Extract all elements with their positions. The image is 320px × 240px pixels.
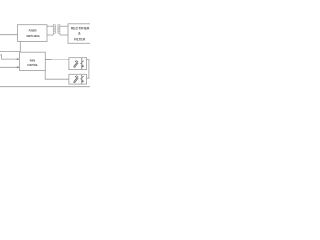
wire power switching to transformer primary bottom — [47, 34, 53, 36]
wire feedback input upper into pwm — [0, 55, 20, 59]
wire optocoupler1 right to right rail — [87, 60, 89, 79]
svg-text:POWER: POWER — [29, 29, 37, 33]
power switching block U1 — [18, 25, 48, 42]
wire transformer secondary to rectifier top — [60, 25, 68, 27]
transformer T1 secondary winding — [58, 25, 60, 35]
transformer T1 primary winding — [53, 25, 55, 35]
optocoupler U3 led — [73, 60, 78, 67]
pwm control block U2 — [20, 52, 46, 70]
rectifier and filter block — [68, 24, 93, 44]
svg-text:PWM: PWM — [30, 59, 36, 63]
optocoupler U4 led — [73, 76, 78, 83]
optocoupler block U4 — [69, 74, 87, 84]
wire pwm bottom to optocoupler 2 — [45, 71, 69, 80]
svg-text:RECTIFIER: RECTIFIER — [71, 27, 90, 31]
wire AC input to power switching — [0, 34, 18, 36]
wire power switching to pwm control vertical — [19, 42, 21, 53]
wire transformer secondary to rectifier bottom — [60, 34, 68, 36]
arrowhead into pwm lower — [17, 66, 20, 68]
wire pwm control to optocoupler 1 (dark start) — [45, 59, 51, 61]
svg-text:FILTER: FILTER — [74, 37, 86, 41]
arrowhead into pwm upper — [17, 58, 20, 60]
optocoupler U4 phototransistor — [80, 75, 83, 84]
optocoupler U3 phototransistor — [80, 58, 84, 69]
wire bottom ground rail — [0, 86, 90, 88]
wire left input to vertical junction — [0, 51, 20, 53]
optocoupler block U3 — [69, 58, 87, 70]
wire feedback input lower into pwm — [0, 66, 20, 68]
svg-text:CONTROL: CONTROL — [27, 63, 38, 67]
wire power switching to transformer primary top — [47, 25, 53, 27]
wire pwm to optocoupler faint part — [52, 59, 69, 61]
svg-text:SWITCHING: SWITCHING — [26, 34, 40, 38]
